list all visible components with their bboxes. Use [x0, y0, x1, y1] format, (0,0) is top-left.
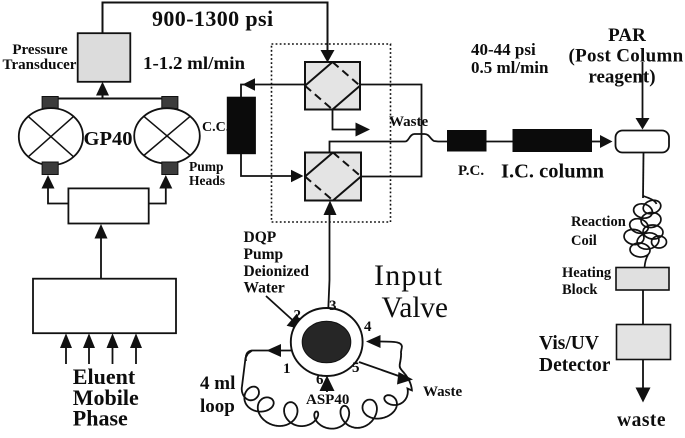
C.C. concentrator column (black box) — [227, 97, 255, 154]
wire I.C. column to mixing tee — [592, 141, 602, 143]
pump circle left — [19, 108, 83, 165]
wire connecting pump heads top — [50, 98, 169, 100]
input valve inner rotor (dark) — [302, 321, 351, 363]
arrow pointing right (waste) — [356, 123, 371, 137]
svg-text:Detector: Detector — [539, 355, 611, 376]
svg-text:Input: Input — [374, 259, 443, 292]
heating block box — [616, 268, 669, 291]
svg-text:900-1300 psi: 900-1300 psi — [152, 6, 274, 31]
svg-text:Heads: Heads — [189, 173, 225, 188]
svg-text:Waste: Waste — [389, 114, 429, 130]
wire detector to waste — [642, 360, 644, 390]
Vis/UV detector box — [617, 325, 671, 360]
svg-text:Water: Water — [244, 280, 285, 297]
svg-text:4 ml: 4 ml — [200, 373, 235, 394]
svg-text:Block: Block — [562, 282, 598, 298]
wire bottom valve top port to P.C. with hop — [330, 134, 448, 153]
pressure transducer box — [78, 33, 131, 82]
arrow pointing left on that wire — [243, 78, 256, 91]
arrow pointing right into bottom valve — [291, 170, 304, 183]
svg-text:DQP: DQP — [244, 229, 277, 246]
I.C. column black box — [513, 129, 593, 152]
eluent inlet arrow 2 — [83, 333, 95, 348]
svg-text:Vis/UV: Vis/UV — [539, 333, 599, 354]
wire top valve right port down right side — [360, 85, 422, 177]
ASP40 arrow into port 6 — [326, 389, 328, 392]
wire P.C. to I.C. column — [487, 141, 513, 143]
wire from eluent box to mixer — [100, 238, 102, 279]
arrow into mixing tee — [600, 135, 613, 148]
wire port 5 to waste arrow — [359, 362, 403, 378]
svg-text:4: 4 — [364, 319, 372, 335]
dotted enclosure box — [272, 44, 391, 222]
arrow from loop into port 4 — [380, 342, 402, 348]
mixer rectangle — [68, 188, 148, 223]
eluent inlet arrow 4 — [130, 333, 142, 348]
svg-text:3: 3 — [329, 298, 337, 314]
wire port1 to loop with left arrow — [246, 351, 292, 362]
wire heating block to detector — [642, 290, 644, 325]
svg-text:Waste: Waste — [423, 384, 463, 400]
pump head valve square bottom-right — [162, 162, 178, 175]
wire from mixer to left pump — [48, 188, 68, 204]
svg-text:0.5 ml/min: 0.5 ml/min — [471, 58, 549, 77]
svg-text:Transducer: Transducer — [3, 57, 77, 73]
wire C.C. bottom to bottom valve left port — [241, 154, 292, 176]
svg-text:Pump: Pump — [244, 246, 284, 263]
svg-text:Pressure: Pressure — [12, 42, 68, 58]
svg-text:1-1.2 ml/min: 1-1.2 ml/min — [143, 53, 245, 73]
wire top valve bottom to waste arrow — [333, 110, 357, 130]
svg-text:I.C. column: I.C. column — [501, 161, 605, 183]
svg-text:PAR: PAR — [608, 25, 646, 46]
DQP arrow into input valve — [266, 296, 293, 321]
svg-text:2: 2 — [294, 308, 302, 324]
wire input valve to bottom valve — [328, 215, 329, 309]
wire from pressure transducer top to top valve — [103, 3, 328, 53]
mixing tee rounded rect — [616, 131, 670, 153]
svg-text:Coil: Coil — [571, 233, 597, 249]
svg-text:(Post Column: (Post Column — [569, 46, 684, 67]
svg-text:reagent): reagent) — [588, 67, 655, 88]
svg-text:P.C.: P.C. — [458, 163, 484, 179]
arrow up into right pump bottom — [159, 175, 172, 189]
svg-text:Heating: Heating — [562, 265, 612, 281]
bottom injection valve body — [305, 153, 361, 201]
svg-text:loop: loop — [200, 396, 235, 417]
eluent inlet arrow 3 — [107, 333, 119, 348]
svg-text:Pump: Pump — [189, 159, 224, 174]
svg-text:Phase: Phase — [73, 406, 128, 431]
pump head valve square top-left — [42, 97, 58, 109]
arrow from pump line up into transducer — [102, 95, 104, 99]
svg-text:waste: waste — [617, 410, 666, 431]
svg-text:40-44 psi: 40-44 psi — [471, 40, 536, 59]
eluent reservoir box — [33, 279, 176, 334]
svg-text:ASP40: ASP40 — [306, 392, 349, 408]
arrow into top valve top — [321, 50, 335, 63]
svg-text:Valve: Valve — [382, 291, 449, 324]
svg-text:5: 5 — [352, 360, 360, 376]
P.C. pre-column black box — [447, 130, 487, 152]
svg-text:Reaction: Reaction — [571, 214, 626, 230]
arrow up into left pump bottom — [42, 175, 55, 189]
wire PAR down to mixing tee — [642, 62, 644, 119]
wire from mixer to right pump — [149, 188, 166, 204]
svg-text:GP40: GP40 — [84, 128, 133, 150]
arrow up into bottom valve bottom — [324, 201, 337, 216]
svg-text:Deionized: Deionized — [244, 263, 310, 280]
wire tee to reaction coil — [642, 153, 645, 199]
svg-text:C.C.: C.C. — [202, 120, 229, 135]
top injection valve body — [305, 62, 360, 110]
eluent inlet arrow 1 — [60, 333, 72, 348]
input valve outer circle — [291, 308, 363, 376]
pump head valve square bottom-left — [42, 162, 58, 175]
wire top valve left port to C.C. top — [241, 85, 305, 98]
reaction coil scribble — [623, 196, 667, 268]
4 ml sample loop scribble — [242, 347, 412, 429]
arrow up into mixer bottom — [95, 224, 108, 239]
pump head valve square top-right — [162, 97, 178, 109]
svg-text:1: 1 — [283, 361, 291, 377]
pump circle right — [134, 108, 200, 163]
